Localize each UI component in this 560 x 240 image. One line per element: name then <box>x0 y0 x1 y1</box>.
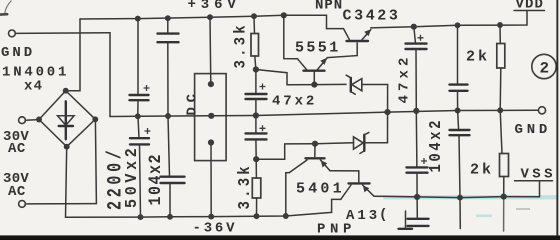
cyan highlight on VSS rail <box>383 195 557 199</box>
svg-text:+36V: +36V <box>188 0 241 13</box>
node 30V AC terminal lower <box>19 201 26 208</box>
node 30V AC terminal upper <box>19 117 26 124</box>
resistor 2k upper <box>497 25 505 110</box>
wire +36V rail <box>80 15 284 19</box>
junction VDD rail at 104 <box>455 22 461 28</box>
svg-text:5551: 5551 <box>295 40 341 57</box>
wire zener link vertical <box>387 85 389 143</box>
junction -36V at DC block <box>208 214 214 220</box>
connector block DC output <box>195 74 227 161</box>
svg-text:AC: AC <box>8 141 26 157</box>
wire C3423 collector staircase to +36V node <box>284 15 344 28</box>
capacitor 47u mid upper (plus up) <box>246 70 267 116</box>
wire AC lower to riser <box>25 203 96 205</box>
wire 5401 emitter to A13 base <box>330 171 359 182</box>
wire GND terminal to down-corner <box>15 32 110 35</box>
transistor Q4 A1360 <box>341 183 374 199</box>
zener diode ZD1 <box>314 75 387 94</box>
junction bridge left <box>36 117 42 123</box>
capacitor 47u right lower (plus up) <box>407 111 428 197</box>
wire AC upper to bridge left vertex <box>25 119 38 122</box>
junction 5551 base node <box>311 82 317 88</box>
wire stub below VSS at 2k column <box>503 197 505 231</box>
pin 1 DC block <box>208 81 214 87</box>
junction 5401 base node <box>312 141 318 147</box>
svg-text:PNP: PNP <box>317 222 356 238</box>
capacitor 104 right upper <box>450 25 468 110</box>
svg-text:DC: DC <box>185 89 201 115</box>
cyan smudge lower right <box>476 215 492 218</box>
node GND output terminal <box>538 107 545 114</box>
wire -36V rail <box>66 212 332 217</box>
junction GND rail at 2k <box>497 107 503 113</box>
callout circle 2 <box>532 54 556 78</box>
svg-text:2k: 2k <box>470 162 494 179</box>
junction zener link at GND rail <box>384 109 390 115</box>
junction -36V at C4 <box>167 214 173 220</box>
resistor 3.3k upper <box>251 16 259 69</box>
wire VDD underline <box>514 10 545 12</box>
wire GND mid rail <box>110 110 538 116</box>
junction GND rail at C3/C4 <box>165 113 171 119</box>
resistor 3.3k lower <box>252 159 260 216</box>
svg-text:2k: 2k <box>466 49 490 66</box>
svg-text:C3423: C3423 <box>343 8 401 25</box>
capacitor 104 upper-left <box>158 18 179 116</box>
gray smudge lower right <box>516 208 530 210</box>
pen mark top-left corner <box>5 1 12 14</box>
scan black band bottom <box>0 235 560 240</box>
svg-text:104x2: 104x2 <box>145 153 166 205</box>
capacitor stub below VSS rail at 47u column <box>408 197 429 226</box>
wire riser to bridge right vertex <box>95 119 96 203</box>
junction bridge top <box>63 88 69 94</box>
junction VSS rail at 47u <box>414 194 420 200</box>
diode 1N4001 inside bridge <box>58 101 75 139</box>
svg-text:5401: 5401 <box>296 181 345 198</box>
junction zener ref upper node <box>253 66 259 72</box>
svg-text:GND: GND <box>1 45 35 61</box>
wire ref node to 5401 base jog <box>256 144 315 160</box>
capacitor 47u mid lower (plus up) <box>246 116 267 160</box>
capacitor 104 lower-left <box>161 116 185 217</box>
junction +36V at DC block <box>207 14 213 20</box>
svg-text:(: ( <box>379 207 387 223</box>
svg-text:2: 2 <box>540 60 550 78</box>
junction VDD rail at 2k <box>497 22 503 28</box>
scan page-edge line right <box>556 0 558 236</box>
wire A13 collector to -36V rail end <box>332 199 341 212</box>
junction GND rail at C1/C2 <box>135 113 141 119</box>
transistor Q1 5551 <box>298 58 328 85</box>
transistor Q2 C3423 <box>327 29 371 58</box>
junction -36V at Q3 collector riser <box>283 213 289 219</box>
capacitor 2200u upper (plus up) <box>130 19 150 117</box>
junction -36V at C2 <box>138 214 144 220</box>
junction VSS rail at 2k <box>501 194 507 200</box>
svg-text:50Vx2: 50Vx2 <box>122 145 141 208</box>
wire 5401 collector to -36V <box>286 173 290 216</box>
wire DC block pin3 lead <box>210 143 212 217</box>
junction +36V at R1 <box>251 13 257 19</box>
zener diode ZD2 <box>315 132 388 153</box>
wire stub below VSS at 104 column <box>459 198 461 229</box>
junction GND rail at 104 right <box>455 108 461 114</box>
capacitor 47u right upper (plus up) <box>406 27 427 111</box>
wire ref node to 5551 base jog <box>256 70 315 85</box>
wire 5551 collector to +36V <box>284 15 298 59</box>
junction zener ref lower node <box>253 156 259 162</box>
svg-text:AC: AC <box>8 184 26 200</box>
resistor 2k lower <box>500 110 509 196</box>
node GND input terminal <box>9 30 16 37</box>
bridge rectifier diamond <box>39 91 95 147</box>
junction bridge right <box>92 116 98 122</box>
svg-text:GND: GND <box>515 122 552 138</box>
wire VSS rail <box>374 181 540 198</box>
junction GND rail at 47u caps <box>253 112 259 118</box>
svg-text:3.3k: 3.3k <box>233 22 250 68</box>
svg-text:104x2: 104x2 <box>426 118 446 172</box>
svg-text:47x2: 47x2 <box>397 53 413 103</box>
junction bridge bottom <box>64 144 70 150</box>
junction VSS rail at 104 <box>457 195 463 201</box>
wire DC block pin1 lead <box>209 17 212 84</box>
capacitor 2200u lower (plus up) <box>130 116 151 217</box>
svg-text:x4: x4 <box>24 79 43 95</box>
junction VDD rail at 47u <box>411 24 417 30</box>
junction +36V at C1 <box>135 16 141 22</box>
transistor Q3 5401 <box>289 144 330 173</box>
wire VDD rail <box>371 11 527 28</box>
junction +36V at C3 <box>165 15 171 21</box>
cap/ground mark below VSS rail <box>399 211 413 229</box>
junction -36V at R2 <box>254 213 260 219</box>
wire bridge minus down to -36V rail <box>66 147 67 218</box>
wire GND vertical drop x=110 <box>109 33 111 117</box>
pin 2 DC block <box>208 113 214 119</box>
wire bridge plus to +36V rail <box>66 19 80 91</box>
svg-text:NPN: NPN <box>315 0 343 14</box>
wire VSS underline <box>515 180 553 182</box>
svg-text:-36V: -36V <box>193 221 238 237</box>
junction GND rail at 47u right <box>413 108 419 114</box>
pin 3 DC block <box>208 139 214 145</box>
svg-text:47x2: 47x2 <box>272 94 317 110</box>
svg-text:3.3k: 3.3k <box>235 163 255 209</box>
junction +36V main node <box>281 12 287 18</box>
capacitor 104 right lower <box>450 111 470 198</box>
